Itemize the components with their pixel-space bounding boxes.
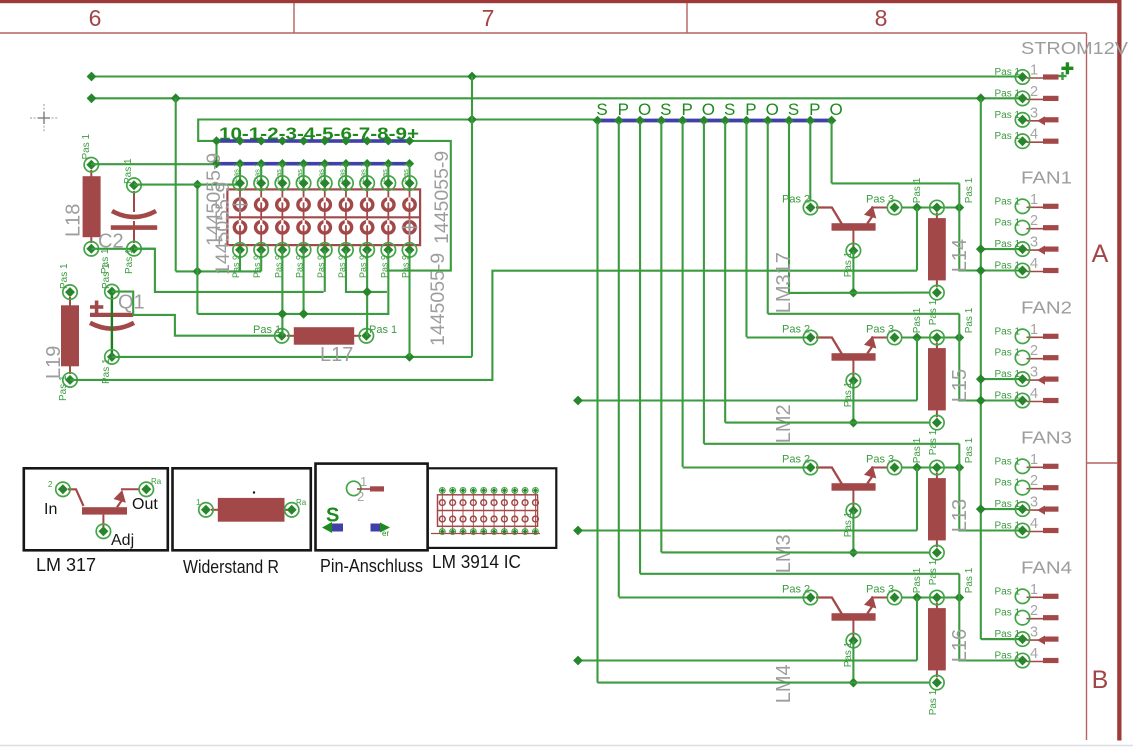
pin pad FAN2.1 [1015, 329, 1029, 343]
legend box Pin-Anschluss [316, 464, 428, 551]
svg-text:STROM12V: STROM12V [1021, 38, 1128, 58]
svg-text:Pas 1: Pas 1 [995, 218, 1021, 229]
pin IC top 6 [339, 176, 353, 190]
wire x959 drop to FAN pin4 [959, 468, 1022, 531]
svg-text:3: 3 [1030, 365, 1038, 381]
pin pad FAN1.3 [1015, 242, 1029, 256]
pin C2.2 [127, 242, 141, 256]
wire c1 rail LM4 [598, 682, 930, 684]
junction y357 IC col9 [405, 352, 415, 362]
junction SPO bar [635, 116, 645, 126]
wire riser x472 [471, 77, 473, 357]
svg-text:1: 1 [1030, 192, 1038, 208]
capacitor Q1 [90, 301, 134, 329]
pin IC top 7 [360, 176, 374, 190]
pin FAN1.2 [1027, 225, 1059, 230]
svg-text:Pas 1: Pas 1 [995, 586, 1021, 597]
svg-text:B: B [1092, 666, 1109, 694]
svg-text:Pas 1: Pas 1 [964, 437, 975, 463]
svg-text:4: 4 [1030, 646, 1038, 662]
junction x980 [976, 504, 986, 514]
junction col4 y314 [299, 309, 309, 319]
pin LM2 In [803, 330, 817, 344]
wire x959 riser LM2 [958, 314, 960, 338]
symbol plus small [1059, 72, 1067, 80]
svg-text:Q1: Q1 [118, 292, 145, 314]
pin FAN2.1 [1027, 334, 1059, 339]
resistor L18 [83, 170, 101, 243]
svg-text:Pas 1: Pas 1 [928, 299, 939, 325]
pin IC bottom 2 [254, 243, 268, 257]
pin Q1.+ [105, 284, 119, 298]
wire LM2 out row [902, 336, 959, 338]
pin FAN2.4 [1027, 398, 1059, 403]
svg-text:Pas 1: Pas 1 [369, 324, 397, 336]
svg-text:4: 4 [1030, 516, 1038, 532]
wire x917 drop [916, 468, 918, 531]
legend mini IC column [524, 489, 526, 532]
svg-text:LM3: LM3 [773, 534, 795, 573]
wire L19.2 long bus to FAN1 [70, 271, 917, 380]
svg-text:Pas 2: Pas 2 [782, 453, 810, 465]
pin FAN1.1 [1027, 204, 1059, 209]
svg-text:8: 8 [875, 5, 888, 31]
svg-text:Pas 2: Pas 2 [782, 193, 810, 205]
wire c9 approach LM2 [768, 313, 960, 315]
wire x959 drop to FAN pin4 [959, 338, 1022, 401]
svg-text:Ra: Ra [151, 477, 162, 486]
pin FAN3.3 [1027, 506, 1059, 515]
IC pad [404, 199, 415, 210]
IC column 1 vertical [239, 164, 241, 190]
wire LM4 out row [902, 596, 959, 598]
svg-text:4: 4 [1030, 386, 1038, 402]
svg-text:Pas 3: Pas 3 [866, 193, 894, 205]
wire SPO col 3 drop [639, 122, 641, 574]
pin L15.1 [930, 330, 944, 344]
pin legend In [56, 482, 70, 496]
wire c8 Pas2 feed LM2 [746, 336, 806, 338]
svg-text:Pas 1: Pas 1 [995, 478, 1021, 489]
wire SPO col 4 drop [660, 122, 662, 552]
pin FAN1.3 [1027, 246, 1059, 255]
pin pad FAN2.4 [1015, 393, 1029, 407]
svg-text:Pas 1: Pas 1 [995, 651, 1021, 662]
wire FAN3 pin4 net [578, 529, 917, 531]
svg-text:1: 1 [196, 498, 201, 507]
pin IC bottom 7 [360, 243, 374, 257]
junction bar1 [320, 136, 329, 145]
legend box LM317 [24, 468, 168, 550]
pin IC bottom 1 [233, 243, 247, 257]
pin FAN3.2 [1027, 485, 1059, 490]
svg-text:1: 1 [1030, 582, 1038, 598]
IC pad [298, 199, 309, 210]
svg-text:2: 2 [1030, 343, 1038, 359]
pin L13.1 [930, 460, 944, 474]
svg-text:Pas 1: Pas 1 [337, 163, 346, 182]
IC pad [383, 199, 394, 210]
svg-text:S: S [596, 100, 607, 119]
wire bar1 right loop [387, 141, 451, 271]
resistor L19 [61, 297, 79, 374]
svg-text:Ra: Ra [296, 498, 307, 507]
svg-text:LM 317: LM 317 [36, 555, 96, 575]
frame top bar [0, 0, 1122, 3]
pin IC top 2 [254, 176, 268, 190]
IC column 7 vertical [366, 164, 368, 190]
junction bar1 [405, 136, 414, 145]
svg-text:P: P [681, 100, 692, 119]
wire x917 drop [916, 598, 918, 661]
wire drop x197 [196, 185, 198, 314]
wire SPO col 2 drop [618, 122, 620, 597]
svg-text:Pas 1: Pas 1 [274, 163, 283, 182]
capacitor C2 [111, 191, 157, 243]
svg-text:Pas 1: Pas 1 [928, 559, 939, 585]
pin LM4 Out [887, 590, 901, 604]
wire SPO col 9 drop [767, 122, 769, 314]
pin L14.2 [930, 285, 944, 299]
pin pad FAN4.4 [1015, 653, 1029, 667]
pin pad FAN4.3 [1015, 632, 1029, 646]
pin IC bottom 6 [339, 243, 353, 257]
pin pad FAN2.3 [1015, 372, 1029, 386]
svg-text:3: 3 [1030, 235, 1038, 251]
junction x197 C2 top net [193, 180, 203, 190]
svg-text:S: S [660, 100, 671, 119]
pin pad STROM12V.2 [1015, 91, 1029, 105]
svg-text:LM317: LM317 [773, 252, 795, 313]
junction bar2 [341, 159, 350, 168]
IC column 3 vertical [281, 164, 283, 190]
wire L18.2 C2.2 link [91, 248, 155, 250]
junction bar1 [257, 136, 266, 145]
pin legend Adj [96, 524, 110, 538]
legend pin stub [357, 488, 370, 490]
junction emitter rail [849, 288, 859, 298]
pin FAN4.2 [1027, 615, 1059, 620]
wire IC col2 down [260, 250, 262, 272]
junction out row x917 [912, 203, 922, 213]
pin IC top 4 [296, 176, 310, 190]
junction bus wire / riser x472 [467, 115, 477, 125]
svg-text:Pas 1: Pas 1 [912, 177, 923, 203]
legend mini IC column [483, 489, 485, 532]
junction bar1 [341, 136, 350, 145]
svg-text:L15: L15 [949, 369, 971, 402]
transistor LM317 [816, 206, 888, 250]
IC pad [255, 199, 266, 210]
IC pad [340, 199, 351, 210]
pin STROM12V.3 [1027, 116, 1059, 125]
pin IC bottom 5 [318, 243, 332, 257]
wire Q1.+ to L17.1 [112, 292, 282, 336]
pin STROM12V.2 [1027, 96, 1059, 101]
svg-text:3: 3 [1030, 105, 1038, 121]
pin IC top 1 [233, 176, 247, 190]
svg-text:Pas 1: Pas 1 [995, 629, 1021, 640]
wire C2.2 run y292 [134, 249, 324, 292]
wire LM2 emitter down [852, 381, 854, 423]
IC pad [404, 222, 415, 233]
pin L15.2 [930, 415, 944, 429]
junction col3 y314 [277, 309, 287, 319]
wire SPO col 8 drop [745, 122, 747, 337]
svg-text:Widerstand R: Widerstand R [183, 557, 279, 577]
wire IC col6 down [346, 250, 387, 292]
svg-text:Pas 1: Pas 1 [995, 521, 1021, 532]
svg-text:O: O [766, 100, 779, 119]
junction bar2 [405, 159, 414, 168]
junction bar1 [363, 136, 372, 145]
pin pad FAN3.1 [1015, 459, 1029, 473]
pin LM2 Adj [846, 373, 860, 387]
svg-text:1: 1 [1030, 322, 1038, 338]
pin pad FAN2.2 [1015, 351, 1029, 365]
pin LM317 Out [887, 200, 901, 214]
svg-text:4: 4 [1030, 127, 1038, 143]
pin FAN4.4 [1027, 658, 1059, 663]
svg-text:FAN2: FAN2 [1021, 297, 1072, 317]
pin pad FAN1.4 [1015, 263, 1029, 277]
IC column 8 vertical [387, 164, 389, 190]
junction SPO bar [720, 116, 730, 126]
pin FAN2.2 [1027, 355, 1059, 360]
wire FAN4 pin3 feed [981, 638, 1023, 640]
IC column 9 vertical [408, 164, 410, 190]
wire c4 rail LM3 [661, 551, 929, 553]
junction SPO bar [806, 116, 816, 126]
IC pad [277, 222, 288, 233]
svg-text:1: 1 [1030, 63, 1038, 79]
resistor L13 [928, 473, 946, 548]
svg-text:Pas 1: Pas 1 [995, 239, 1021, 250]
wire c12 approach LM317 [832, 182, 960, 184]
junction GND rail x175 [171, 93, 181, 103]
svg-text:Pas 1: Pas 1 [58, 375, 69, 401]
svg-text:Pas 1: Pas 1 [995, 348, 1021, 359]
pin IC bottom 8 [381, 243, 395, 257]
pin LM317 Adj [846, 243, 860, 257]
junction bar1 [212, 136, 221, 145]
pin L16.2 [930, 675, 944, 689]
wire LM4 emitter down [852, 641, 854, 683]
transistor LM3 [816, 466, 888, 510]
svg-text:Pas 1: Pas 1 [995, 369, 1021, 380]
pin pad STROM12V.3 [1015, 113, 1029, 127]
pin FAN3.4 [1027, 528, 1059, 533]
legend mini IC column [441, 489, 443, 532]
legend mini IC column [452, 489, 454, 532]
svg-text:Pas 2: Pas 2 [782, 323, 810, 335]
pin LM3 Out [887, 460, 901, 474]
wire SPO col 10 drop [788, 122, 790, 293]
IC pad [255, 222, 266, 233]
wire x959 riser LM3 [958, 444, 960, 468]
svg-text:Pas 1: Pas 1 [995, 261, 1021, 272]
svg-text:S: S [326, 505, 339, 527]
wire LM3 out row [902, 466, 959, 468]
IC pad [298, 222, 309, 233]
wire c6 approach LM3 [704, 443, 959, 445]
svg-text:O: O [638, 100, 651, 119]
wire LM3 emitter down [852, 511, 854, 553]
IC pad [277, 199, 288, 210]
junction out row x917 [912, 593, 922, 603]
svg-text:LM4: LM4 [773, 664, 795, 703]
wire Q1.- run y357 [112, 356, 472, 358]
pin STROM12V.4 [1027, 139, 1059, 144]
junction x980 [976, 396, 986, 406]
junction bar2 [278, 159, 287, 168]
svg-text:L13: L13 [949, 499, 971, 532]
pin L18.2 [84, 242, 98, 256]
junction bar2 [320, 159, 329, 168]
pin pad FAN4.2 [1015, 611, 1029, 625]
svg-text:Pas 1: Pas 1 [843, 251, 854, 277]
svg-text:Pas 1: Pas 1 [295, 163, 304, 182]
pin legend pin symbol [347, 481, 361, 495]
pin pad FAN3.3 [1015, 502, 1029, 516]
pin IC bottom 4 [296, 243, 310, 257]
wire x959 riser LM4 [958, 574, 960, 598]
svg-text:Pas 1: Pas 1 [995, 67, 1021, 78]
pin LM4 In [803, 590, 817, 604]
frame right thin border [1086, 33, 1088, 740]
junction SPO bar [593, 116, 603, 126]
svg-text:Pas 1: Pas 1 [380, 163, 389, 182]
svg-text:7: 7 [482, 5, 495, 31]
pin Q1.- [105, 350, 119, 364]
legend mini IC column [472, 489, 474, 532]
svg-text:1445055-9: 1445055-9 [431, 151, 453, 244]
legend resistor symbol [211, 498, 291, 522]
svg-text:S: S [724, 100, 735, 119]
resistor L16 [928, 603, 946, 678]
junction bar2 [299, 159, 308, 168]
junction out row x917 [912, 333, 922, 343]
wire c10 rail LM317 [789, 292, 929, 294]
frame bottom faint line [0, 745, 1133, 747]
svg-text:Pas 3: Pas 3 [866, 323, 894, 335]
svg-text:Pas 3: Pas 3 [866, 453, 894, 465]
junction SPO bar [699, 116, 709, 126]
wire IC col4 down [303, 250, 305, 314]
svg-text:1: 1 [360, 474, 367, 489]
junction bar2 [384, 159, 393, 168]
pin pad FAN3.4 [1015, 523, 1029, 537]
svg-text:Pas 1: Pas 1 [316, 163, 325, 182]
wire SPO col 1 drop [596, 122, 598, 683]
svg-text:Pas 1: Pas 1 [995, 499, 1021, 510]
resistor L15 [928, 343, 946, 418]
origin crosshair [30, 104, 58, 132]
junction bar2 [212, 159, 221, 168]
svg-text:C2: C2 [98, 231, 124, 253]
junction col7 y292 [362, 287, 372, 297]
junction SPO bar [784, 116, 794, 126]
symbol plus large [1061, 62, 1073, 74]
transistor LM2 [816, 336, 888, 380]
IC pad [234, 199, 245, 210]
pin L19.2 [63, 373, 77, 387]
svg-text:O: O [829, 100, 842, 119]
pin L18.1 [84, 158, 98, 172]
junction out row x917 [912, 463, 922, 473]
legend arrow 2 [371, 524, 381, 532]
svg-text:2: 2 [1030, 84, 1038, 100]
frame right thick border [1117, 0, 1121, 741]
IC pad [361, 222, 372, 233]
pin STROM12V.1 [1027, 74, 1059, 79]
legend mini IC column [493, 489, 495, 532]
svg-text:4: 4 [1030, 256, 1038, 272]
junction bar1 [278, 136, 287, 145]
wire x959 riser LM317 [958, 183, 960, 207]
junction SPO bar [763, 116, 773, 126]
junction SPO bar [742, 116, 752, 126]
svg-text:Pas 1: Pas 1 [995, 608, 1021, 619]
svg-text:Pas 1: Pas 1 [124, 248, 135, 274]
IC pad [319, 199, 330, 210]
bus bar blue top [217, 139, 411, 143]
pin pad STROM12V.4 [1015, 134, 1029, 148]
IC column 4 vertical [303, 164, 305, 190]
svg-text:Pas 1: Pas 1 [928, 689, 939, 715]
legend mini IC column [462, 489, 464, 532]
junction x980 [976, 244, 986, 254]
svg-text:P: P [809, 100, 820, 119]
svg-text:Pin-Anschluss: Pin-Anschluss [320, 556, 423, 576]
wire IC col9 down [408, 250, 410, 357]
svg-text:Pas 2: Pas 2 [782, 583, 810, 595]
wire LM317 out row [902, 206, 959, 208]
svg-text:LM2: LM2 [773, 404, 795, 443]
svg-text:Pas 1: Pas 1 [359, 163, 368, 182]
svg-text:L14: L14 [949, 239, 971, 272]
wire bus bar1 to SPO bar [198, 120, 597, 141]
pin LM4 Adj [846, 633, 860, 647]
svg-text:2: 2 [1030, 603, 1038, 619]
pin LM3 In [803, 460, 817, 474]
wire LM317 emitter down [852, 251, 854, 293]
pin pad STROM12V.1 [1015, 70, 1029, 84]
pin pad FAN1.2 [1015, 221, 1029, 235]
svg-text:FAN3: FAN3 [1021, 427, 1072, 447]
junction out row x959 [954, 593, 964, 603]
wire c2 Pas2 feed LM4 [619, 596, 806, 598]
wire x959 drop to FAN pin4 [959, 598, 1022, 661]
svg-text:6: 6 [89, 5, 102, 31]
legend box LM3914 [428, 468, 557, 548]
wire GND run y271 [176, 270, 262, 272]
junction +12V rail / riser [467, 72, 477, 82]
svg-text:Pas 1: Pas 1 [964, 567, 975, 593]
legend mini IC column [503, 489, 505, 532]
wire SPO col 7 drop [724, 122, 726, 423]
pin FAN2.3 [1027, 376, 1059, 385]
resistor L14 [928, 213, 946, 288]
svg-text:Pas 1: Pas 1 [995, 110, 1021, 121]
svg-text:Pas 1: Pas 1 [995, 391, 1021, 402]
svg-text:2: 2 [48, 480, 53, 489]
junction SPO bar [614, 116, 624, 126]
svg-text:L17: L17 [320, 344, 353, 366]
resistor L17 [287, 327, 361, 345]
frame header divider 1 [293, 3, 295, 33]
wire net +12V top rail [92, 75, 1023, 77]
